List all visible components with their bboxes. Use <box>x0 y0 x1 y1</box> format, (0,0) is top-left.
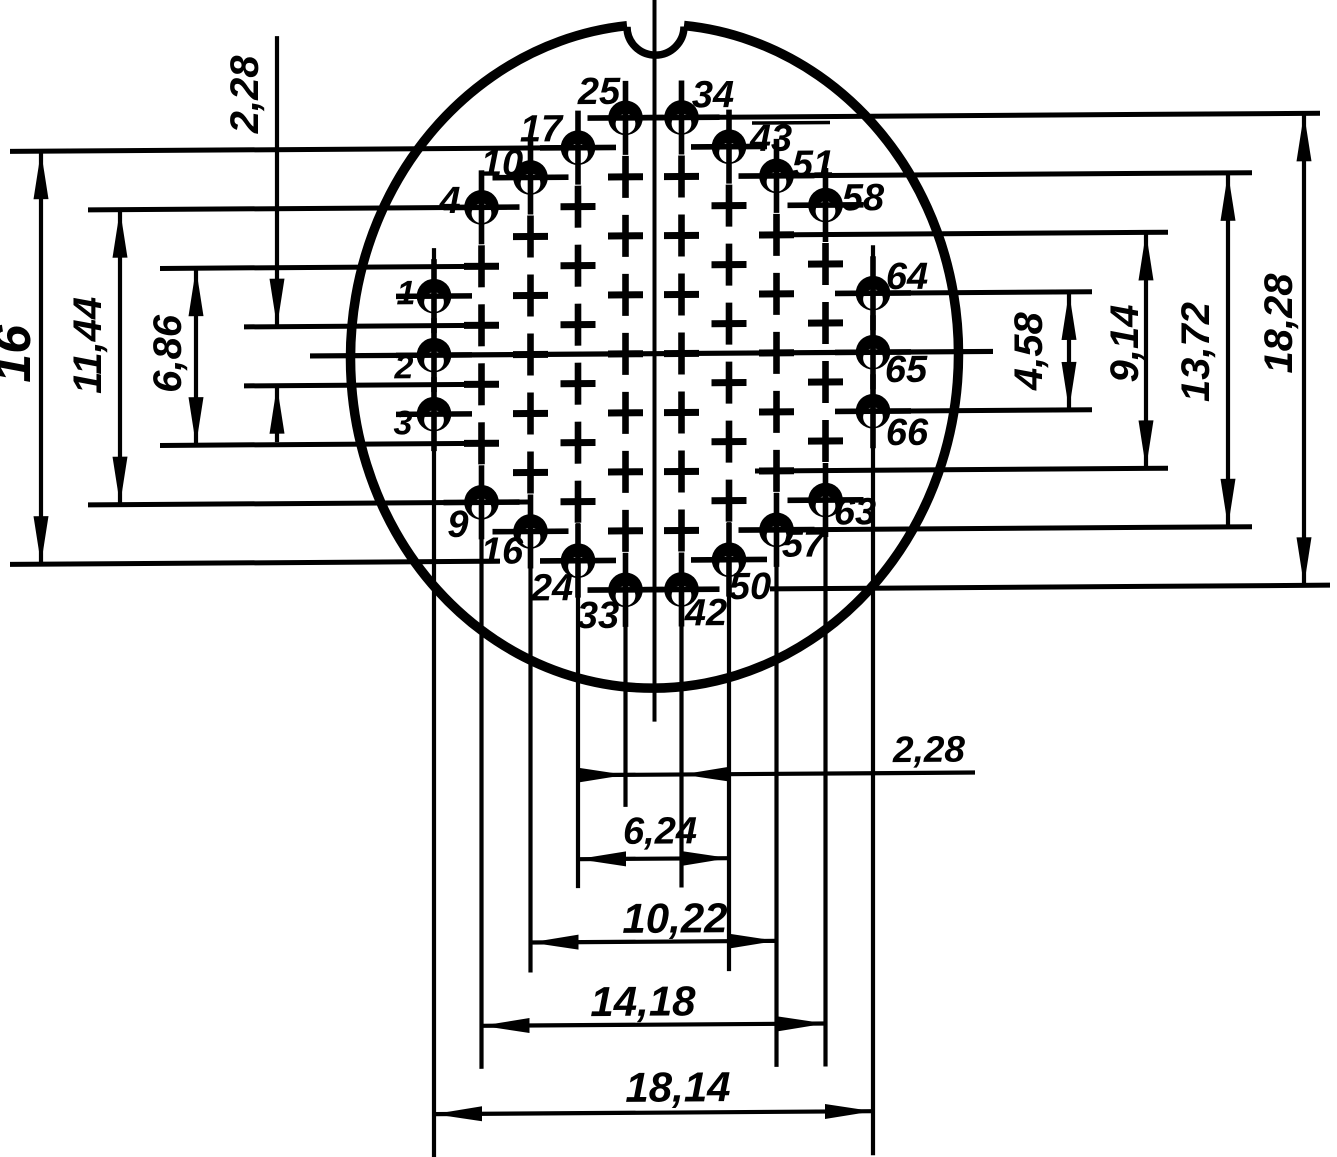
extension line 2,28 bottom <box>244 384 497 386</box>
extension line column 4 <box>576 523 580 888</box>
svg-text:34: 34 <box>692 74 734 116</box>
dimension 9,14 (right) <box>1144 232 1148 468</box>
contact 61 cross <box>808 378 843 385</box>
extension line column 3 <box>528 494 532 972</box>
svg-text:9,14: 9,14 <box>1103 304 1147 382</box>
contact 45 cross <box>712 261 747 268</box>
extension line 6,86 bottom <box>160 443 497 445</box>
dimension 16 (left) <box>39 151 43 564</box>
contact 15 cross <box>513 469 548 476</box>
extension line 2,28 top <box>244 325 497 327</box>
svg-text:24: 24 <box>530 567 573 609</box>
dimension 10,22 (bottom) <box>531 941 777 943</box>
pin 66 <box>835 374 911 449</box>
pin 50 <box>691 522 767 597</box>
contact 5 cross <box>464 263 499 270</box>
extension line 18,28 bottom (pin 42 row) <box>770 585 1330 589</box>
contact 39 cross <box>664 409 699 416</box>
pin 2 <box>396 318 472 393</box>
pin 4 <box>444 170 520 245</box>
svg-text:11,44: 11,44 <box>66 297 110 394</box>
svg-text:3: 3 <box>394 404 413 442</box>
dimension 6,24 (bottom) <box>578 858 729 859</box>
extension line row pins 25/34 (top) <box>596 113 1320 118</box>
contact 20 cross <box>561 321 596 328</box>
extension line 11,44 top (pin 4 row) <box>88 207 507 210</box>
svg-text:16: 16 <box>0 324 42 383</box>
contact 37 cross <box>664 291 699 298</box>
dimension 6,86 (left) <box>194 268 198 445</box>
contact 41 cross <box>664 527 699 534</box>
contact 44 cross <box>712 202 747 209</box>
svg-text:4,58: 4,58 <box>1007 311 1051 391</box>
vertical centerline <box>653 0 657 722</box>
contact 38 cross <box>664 350 699 357</box>
contact 46 cross <box>712 320 747 327</box>
contact 55 cross <box>759 408 794 415</box>
svg-text:33: 33 <box>577 595 619 637</box>
pin 10 <box>493 140 569 215</box>
pin 25 <box>588 81 664 156</box>
pin 64 <box>835 256 911 331</box>
svg-text:66: 66 <box>886 412 929 454</box>
contact 62 cross <box>808 437 843 444</box>
svg-text:2,28: 2,28 <box>223 55 267 135</box>
dimension 14,18 (bottom) <box>482 1024 826 1026</box>
contact 13 cross <box>513 351 548 358</box>
contact 19 cross <box>561 262 596 269</box>
contact 21 cross <box>561 380 596 387</box>
svg-text:6,86: 6,86 <box>146 314 190 393</box>
svg-text:18,28: 18,28 <box>1257 273 1301 374</box>
pin 63 <box>788 463 864 538</box>
contact 35 cross <box>664 173 699 180</box>
contact 22 cross <box>561 439 596 446</box>
contact 26 cross <box>608 173 643 180</box>
svg-text:13,72: 13,72 <box>1174 302 1218 402</box>
svg-text:14,18: 14,18 <box>590 977 696 1025</box>
pin 57 <box>739 493 815 568</box>
svg-text:2,28: 2,28 <box>892 729 965 770</box>
contact 30 cross <box>608 409 643 416</box>
pin 34 <box>644 80 720 155</box>
svg-text:51: 51 <box>792 143 834 185</box>
contact 53 cross <box>759 290 794 297</box>
contact 6 cross <box>464 322 499 329</box>
svg-text:25: 25 <box>577 71 621 113</box>
contact 47 cross <box>712 379 747 386</box>
pin 42 <box>644 552 720 627</box>
dimension 13,72 (right) <box>1226 173 1230 527</box>
svg-text:6,24: 6,24 <box>623 810 697 852</box>
contact 54 cross <box>759 349 794 356</box>
svg-text:17: 17 <box>520 108 564 150</box>
pin 24 <box>540 523 616 598</box>
contact 11 cross <box>513 233 548 240</box>
dimension 4,58 (right) <box>1067 292 1071 410</box>
contact 49 cross <box>712 497 747 504</box>
contact 31 cross <box>608 468 643 475</box>
svg-text:58: 58 <box>842 177 885 219</box>
pin 3 <box>396 377 472 452</box>
svg-text:9: 9 <box>447 504 468 546</box>
horizontal centerline <box>310 351 993 356</box>
extension line 9,14 top <box>793 232 1168 234</box>
svg-text:65: 65 <box>885 349 928 391</box>
svg-text:10,22: 10,22 <box>622 894 727 942</box>
contact 28 cross <box>608 291 643 298</box>
pin 51 <box>739 139 815 214</box>
contact 29 cross <box>608 350 643 357</box>
contact 40 cross <box>664 468 699 475</box>
pin 43 <box>691 109 767 184</box>
svg-text:16: 16 <box>481 531 524 573</box>
pin 17 <box>540 110 616 185</box>
extension line 13,72 top (pin 51 row) <box>788 173 1252 176</box>
extension line column 10 <box>871 245 875 1155</box>
svg-text:1: 1 <box>397 274 416 312</box>
extension line 11,44 bottom (pin 9 row) <box>88 502 528 505</box>
contact 52 cross <box>759 231 794 238</box>
connector shell outline with key notch <box>350 24 958 691</box>
contact 18 cross <box>561 203 596 210</box>
contact 14 cross <box>513 410 548 417</box>
svg-text:4: 4 <box>438 180 460 222</box>
extension line 16-dim bottom (pin 24 row) <box>10 561 500 564</box>
contact 48 cross <box>712 438 747 445</box>
dimension 2,28 (top left, row pitch) <box>275 36 279 327</box>
stray line near pin 43 <box>752 121 830 125</box>
extension line column 8 <box>774 493 778 1067</box>
svg-text:18,14: 18,14 <box>625 1063 730 1111</box>
contact 60 cross <box>808 319 843 326</box>
extension line column 2 <box>479 466 483 1069</box>
contact 8 cross <box>464 440 499 447</box>
extension line column 9 <box>823 464 827 1067</box>
svg-text:2: 2 <box>394 348 414 386</box>
svg-text:50: 50 <box>729 566 771 608</box>
extension line column 6 <box>679 552 683 887</box>
contact 32 cross <box>608 527 643 534</box>
extension line 9,14 bottom <box>755 468 1168 471</box>
contact 23 cross <box>561 498 596 505</box>
contact 59 cross <box>808 260 843 267</box>
dimension 2,28 (bottom, column pitch) <box>583 773 975 776</box>
svg-text:42: 42 <box>684 592 727 634</box>
pin 33 <box>588 553 664 628</box>
pin 65 <box>835 315 911 390</box>
contact 7 cross <box>464 381 499 388</box>
extension line column 1 <box>432 248 436 1157</box>
pin 16 <box>493 494 569 569</box>
extension line 4,58 bottom (pin 66 row) <box>884 410 1092 411</box>
pin 58 <box>788 168 864 243</box>
contact 36 cross <box>664 232 699 239</box>
extension line 4,58 top (pin 64 row) <box>884 292 1092 293</box>
contact 27 cross <box>608 232 643 239</box>
dimension 18,14 (bottom) <box>434 1111 873 1114</box>
contact 56 cross <box>759 467 794 474</box>
pin 1 <box>396 259 472 334</box>
extension line 6,86 top <box>160 266 497 268</box>
extension line column 7 <box>727 522 731 971</box>
contact 12 cross <box>513 292 548 299</box>
extension line 16-dim top (pin 17 row) <box>10 148 600 152</box>
extension line column 5 <box>623 553 627 807</box>
dimension 11,44 (left) <box>118 210 122 505</box>
dimension 18,28 (right) <box>1302 113 1306 585</box>
extension line 13,72 bottom (pin 57 row) <box>745 527 1252 530</box>
pin 9 <box>444 465 520 540</box>
